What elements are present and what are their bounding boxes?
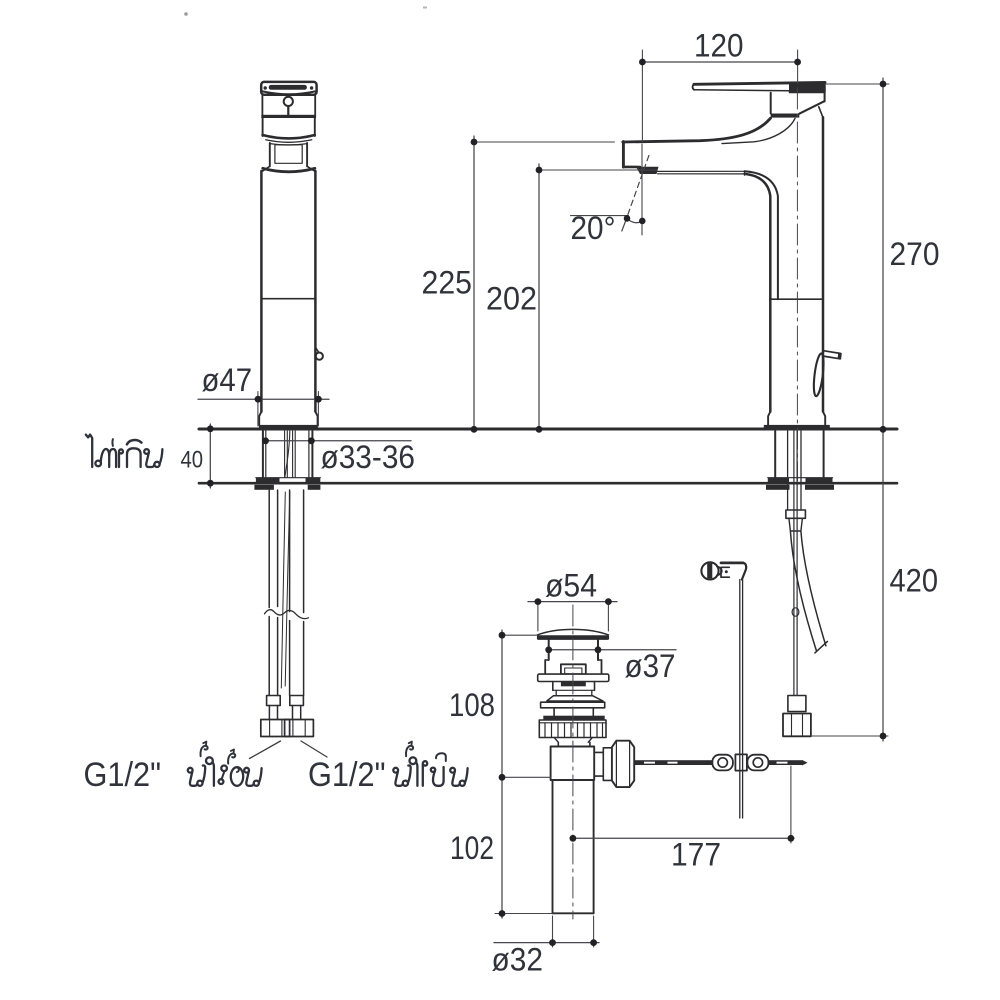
svg-text:ø37: ø37 xyxy=(625,648,676,684)
svg-text:G1/2": G1/2" xyxy=(308,756,386,794)
svg-text:225: 225 xyxy=(422,265,473,301)
svg-text:ø54: ø54 xyxy=(545,568,597,604)
svg-text:177: 177 xyxy=(671,837,721,873)
svg-text:ø47: ø47 xyxy=(202,362,253,398)
svg-text:102: 102 xyxy=(450,830,494,866)
svg-text:120: 120 xyxy=(694,28,744,64)
svg-text:202: 202 xyxy=(486,281,537,317)
svg-text:270: 270 xyxy=(890,236,940,272)
svg-text:20°: 20° xyxy=(571,210,616,246)
svg-text:40: 40 xyxy=(181,447,204,474)
svg-text:420: 420 xyxy=(890,563,939,599)
svg-text:G1/2": G1/2" xyxy=(84,756,162,794)
svg-text:ø33-36: ø33-36 xyxy=(321,439,416,475)
svg-text:108: 108 xyxy=(449,687,495,723)
svg-text:ø32: ø32 xyxy=(492,942,544,978)
